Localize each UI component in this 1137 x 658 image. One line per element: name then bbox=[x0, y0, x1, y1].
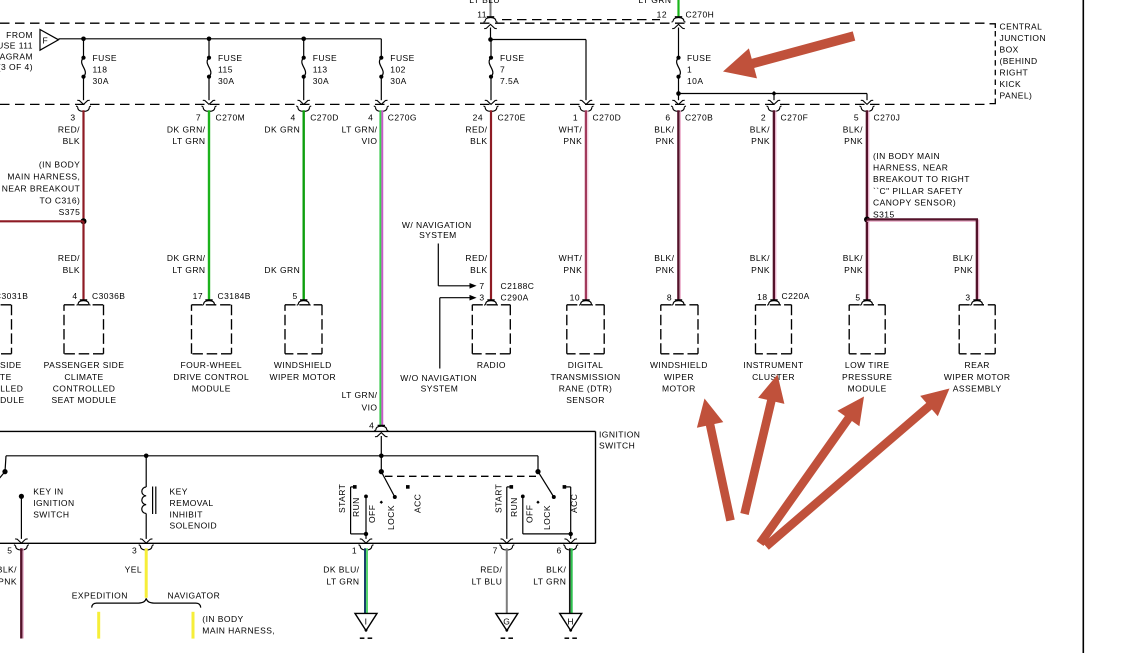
switch - key in ignition switch contact bbox=[15, 494, 27, 543]
svg-text:7: 7 bbox=[493, 546, 498, 556]
junction at fuse 1 output bbox=[676, 91, 681, 96]
junction on bus at fuse 115 bbox=[207, 37, 212, 42]
svg-text:RED/: RED/ bbox=[480, 565, 502, 575]
svg-text:(3 OF 4): (3 OF 4) bbox=[0, 62, 33, 72]
svg-text:G: G bbox=[503, 616, 510, 626]
wire - power bus from F to fuses 118/115/113/102 bbox=[59, 38, 382, 40]
svg-text:BLK/: BLK/ bbox=[843, 253, 863, 263]
label ACC (left) bbox=[413, 494, 423, 513]
junction at pin 4 bbox=[379, 454, 384, 459]
svg-text:6: 6 bbox=[665, 113, 670, 123]
svg-text:C3031B: C3031B bbox=[0, 291, 28, 301]
svg-text:C3184B: C3184B bbox=[218, 291, 251, 301]
svg-text:7.5A: 7.5A bbox=[500, 76, 519, 86]
junction at pin 2 branch bbox=[772, 91, 777, 96]
svg-text:KICK: KICK bbox=[1000, 79, 1022, 89]
svg-text:4: 4 bbox=[72, 291, 77, 301]
connector pin 1 C270D (CJB exit) bbox=[573, 106, 621, 122]
svg-text:11: 11 bbox=[477, 10, 487, 20]
label BLK/PNK 4 (lower) bbox=[843, 253, 863, 275]
connector pin 4 C270D (CJB exit) bbox=[291, 106, 339, 122]
svg-text:LT GRN/: LT GRN/ bbox=[342, 390, 378, 400]
fuse F115 (FUSE 115 30A) bbox=[203, 39, 243, 105]
svg-text:TO C316): TO C316) bbox=[40, 196, 81, 206]
svg-text:PANEL): PANEL) bbox=[1000, 91, 1033, 101]
svg-text:PNK: PNK bbox=[751, 265, 770, 275]
connector pin 8 - windshield wiper motor (right) bbox=[650, 293, 708, 394]
svg-text:VIO: VIO bbox=[362, 136, 378, 146]
svg-text:5: 5 bbox=[7, 546, 12, 556]
svg-text:H: H bbox=[567, 616, 574, 626]
svg-text:SWITCH: SWITCH bbox=[33, 509, 69, 519]
svg-text:C270J: C270J bbox=[874, 113, 901, 123]
connector pins 7 C2188C / 3 C290A - radio bbox=[472, 281, 534, 370]
connector pin 10 - digital transmission rane (DTR) sensor bbox=[550, 293, 620, 405]
wire YEL expedition branch bbox=[97, 612, 100, 639]
connector pin 5 C270J (CJB exit) bbox=[854, 106, 901, 122]
svg-text:C290A: C290A bbox=[501, 293, 529, 303]
svg-text:FUSE: FUSE bbox=[390, 53, 414, 63]
svg-text:BLK: BLK bbox=[63, 136, 80, 146]
svg-text:SEAT MODULE: SEAT MODULE bbox=[51, 395, 116, 405]
svg-text:FUSE: FUSE bbox=[687, 53, 711, 63]
svg-text:RADIO: RADIO bbox=[477, 360, 506, 370]
wire - from pin 11 to fuse 7 and branch to pin 1 bbox=[491, 28, 593, 105]
svg-text:S315: S315 bbox=[873, 209, 895, 219]
svg-text:NAVIGATOR: NAVIGATOR bbox=[168, 591, 221, 601]
svg-text:12: 12 bbox=[657, 10, 667, 20]
svg-text:TRANSMISSION: TRANSMISSION bbox=[550, 372, 620, 382]
wire DK BLU/LT GRN from ignition pin 1 to ground I bbox=[365, 548, 367, 613]
connector pin 17 C3184B - four-wheel drive control module bbox=[173, 291, 250, 393]
svg-text:6: 6 bbox=[557, 546, 562, 556]
connector pin 6 C270B (CJB exit) bbox=[665, 106, 713, 122]
connector pin 5 - windshield wiper motor (left) bbox=[269, 291, 336, 382]
fuse F102 (FUSE 102 30A) bbox=[375, 39, 415, 105]
svg-text:4: 4 bbox=[291, 113, 296, 123]
svg-text:CLIMATE: CLIMATE bbox=[0, 372, 12, 382]
label DK BLU/LT GRN bbox=[323, 565, 359, 587]
wire BLK/PNK pin 5 C270J to S315 bbox=[867, 110, 869, 219]
svg-text:W/ NAVIGATION: W/ NAVIGATION bbox=[402, 220, 472, 230]
svg-text:LOCK: LOCK bbox=[542, 505, 552, 530]
svg-text:BLK/: BLK/ bbox=[843, 124, 863, 134]
junction at solenoid bbox=[144, 454, 149, 459]
svg-text:START: START bbox=[494, 484, 504, 513]
connector pin 3 (CJB exit) bbox=[70, 106, 91, 122]
junction at pin 1 exit bbox=[364, 532, 368, 536]
svg-text:4: 4 bbox=[369, 420, 374, 430]
svg-text:(IN BODY: (IN BODY bbox=[39, 160, 80, 170]
fuse F1 (FUSE 1 10A) bbox=[676, 28, 711, 94]
svg-text:BLK/: BLK/ bbox=[750, 253, 770, 263]
wire RED/BLK from S375 to passenger seat module bbox=[82, 221, 84, 299]
svg-text:FUSE 111: FUSE 111 bbox=[0, 41, 33, 51]
connector pin 11 entry (LT BLU wire from above) bbox=[469, 0, 500, 29]
svg-text:30A: 30A bbox=[218, 76, 234, 86]
svg-text:SENSOR: SENSOR bbox=[566, 395, 605, 405]
svg-text:WHT/: WHT/ bbox=[559, 253, 583, 263]
svg-text:113: 113 bbox=[313, 65, 328, 75]
svg-text:ASSEMBLY: ASSEMBLY bbox=[953, 383, 1002, 393]
svg-text:1: 1 bbox=[573, 113, 578, 123]
svg-text:115: 115 bbox=[218, 65, 233, 75]
svg-text:HARNESS, NEAR: HARNESS, NEAR bbox=[873, 163, 948, 173]
svg-text:10A: 10A bbox=[687, 76, 703, 86]
junction at fuse 7 top bbox=[488, 37, 493, 42]
wire RED/BLK branch from S375 to left bbox=[0, 220, 84, 222]
svg-text:JUNCTION: JUNCTION bbox=[1000, 33, 1047, 43]
label BLK/LT GRN bbox=[533, 565, 566, 587]
wire BLK/PNK pin 6 C270B to windshield wiper motor bbox=[678, 110, 680, 299]
svg-text:RED/: RED/ bbox=[58, 253, 80, 263]
contact START (right) bbox=[510, 485, 514, 489]
mechanical linkage (dashed) bbox=[385, 475, 536, 477]
svg-text:ACC: ACC bbox=[569, 494, 579, 513]
svg-text:INHIBIT: INHIBIT bbox=[170, 509, 203, 519]
svg-text:5: 5 bbox=[855, 293, 860, 303]
label LT GRN/VIO (top) bbox=[342, 124, 378, 146]
svg-text:VIO: VIO bbox=[362, 402, 378, 412]
svg-text:7: 7 bbox=[500, 65, 505, 75]
label EXPEDITION bbox=[72, 591, 128, 601]
contact OFF (right) bbox=[536, 501, 539, 504]
ignition switch (box) bbox=[0, 431, 596, 543]
svg-text:OFF: OFF bbox=[367, 505, 377, 523]
svg-text:3: 3 bbox=[70, 113, 75, 123]
svg-text:30A: 30A bbox=[93, 76, 109, 86]
svg-text:DRIVE CONTROL: DRIVE CONTROL bbox=[173, 372, 249, 382]
svg-text:KEY: KEY bbox=[170, 487, 188, 497]
svg-text:18: 18 bbox=[757, 292, 767, 302]
svg-text:FROM: FROM bbox=[6, 30, 33, 40]
svg-text:PNK: PNK bbox=[656, 136, 675, 146]
svg-text:3: 3 bbox=[479, 293, 484, 303]
svg-text:SYSTEM: SYSTEM bbox=[421, 384, 459, 394]
svg-text:FUSE: FUSE bbox=[313, 53, 337, 63]
off-page connector F (FROM FUSE 111 DIAGRAM (3 OF 4)) bbox=[0, 30, 59, 73]
svg-text:``C" PILLAR SAFETY: ``C" PILLAR SAFETY bbox=[873, 186, 963, 196]
label START (right) bbox=[494, 484, 504, 513]
label (IN BODY MAIN HARNESS, bbox=[202, 614, 275, 636]
svg-text:C3036B: C3036B bbox=[92, 291, 125, 301]
svg-text:1: 1 bbox=[687, 65, 692, 75]
label DK GRN/LT GRN (lower) bbox=[167, 253, 206, 275]
wire BLK/PNK branch S315 to rear wiper motor bbox=[867, 219, 979, 299]
svg-text:MODULE: MODULE bbox=[848, 383, 887, 393]
wire RED/LT BLU from ignition pin 7 to ground G bbox=[506, 548, 508, 613]
svg-text:PNK: PNK bbox=[656, 265, 675, 275]
svg-text:C270M: C270M bbox=[216, 113, 246, 123]
label: IGNITION SWITCH bbox=[599, 430, 640, 451]
connector pin 3 (ignition switch exit) bbox=[132, 545, 154, 556]
annotation arrow (to low tire pressure module) bbox=[760, 397, 864, 544]
contact RUN (right) bbox=[521, 495, 525, 499]
label OFF (right) bbox=[525, 505, 535, 523]
wire BLK/LT GRN from ignition pin 6 to ground H bbox=[570, 548, 572, 613]
label BLK/PNK 2 (lower) bbox=[750, 253, 770, 275]
svg-text:C270B: C270B bbox=[685, 113, 713, 123]
svg-text:4: 4 bbox=[368, 113, 373, 123]
annotation arrow (to instrument cluster) bbox=[745, 375, 785, 515]
wire RED/BLK from pin 3 to S375 bbox=[82, 110, 84, 221]
connector pin 6 (ignition switch exit) bbox=[557, 545, 579, 556]
svg-text:C220A: C220A bbox=[782, 291, 810, 301]
svg-text:DIGITAL: DIGITAL bbox=[568, 360, 604, 370]
svg-text:LT GRN/: LT GRN/ bbox=[342, 124, 378, 134]
svg-text:IGNITION: IGNITION bbox=[599, 430, 640, 440]
wire BLK/PNK from S315 to low tire pressure module bbox=[867, 220, 869, 300]
svg-text:LT BLU: LT BLU bbox=[469, 0, 500, 5]
svg-text:REAR: REAR bbox=[964, 360, 989, 370]
svg-text:IGNITION: IGNITION bbox=[33, 498, 74, 508]
svg-text:RED/: RED/ bbox=[58, 124, 80, 134]
annotation arrow (to rear wiper motor assembly) bbox=[766, 389, 950, 547]
solenoid - key removal inhibit solenoid bbox=[140, 456, 156, 543]
svg-text:RANE (DTR): RANE (DTR) bbox=[559, 383, 613, 393]
svg-text:7: 7 bbox=[196, 113, 201, 123]
label WHT/PNK (lower) bbox=[559, 253, 583, 275]
svg-text:FUSE: FUSE bbox=[500, 53, 524, 63]
wire YEL from ignition pin 3 bbox=[145, 548, 148, 598]
label BLK/PNK 2 (top) bbox=[750, 124, 770, 146]
connector pin 7 (ignition switch exit) bbox=[493, 545, 515, 556]
splice S375 bbox=[2, 160, 87, 225]
switch contact (partial, off-page left) bbox=[0, 456, 8, 486]
svg-text:PNK: PNK bbox=[954, 265, 973, 275]
label WHT/PNK (top) bbox=[559, 124, 583, 146]
wire - START contact to pin 7 bbox=[501, 487, 513, 543]
svg-text:BLK: BLK bbox=[470, 265, 487, 275]
svg-text:(IN BODY MAIN: (IN BODY MAIN bbox=[873, 151, 940, 161]
wire - ignition feed bus bbox=[6, 436, 538, 456]
label RED/BLK (lower) bbox=[58, 253, 80, 275]
svg-text:CLIMATE: CLIMATE bbox=[64, 372, 103, 382]
label: KEY IN IGNITION SWITCH bbox=[33, 487, 74, 520]
label DK GRN (top) bbox=[264, 124, 300, 134]
connector pin 1 (ignition switch exit) bbox=[352, 545, 374, 556]
svg-text:OFF: OFF bbox=[525, 505, 535, 523]
fuse F7 (FUSE 7 7.5A) bbox=[485, 40, 525, 105]
annotation arrow (to FUSE 1) bbox=[723, 36, 854, 78]
svg-text:DK GRN: DK GRN bbox=[264, 124, 300, 134]
connector pin 5 (ignition switch exit) bbox=[7, 545, 29, 556]
connector pin 2 C270F (CJB exit) bbox=[761, 106, 808, 122]
svg-text:BOX: BOX bbox=[1000, 45, 1019, 55]
connector pin 18 C220A - instrument cluster bbox=[743, 291, 809, 382]
svg-text:WIPER MOTOR: WIPER MOTOR bbox=[269, 372, 336, 382]
svg-text:WIPER: WIPER bbox=[664, 372, 694, 382]
svg-text:C2188C: C2188C bbox=[501, 281, 535, 291]
svg-text:LOCK: LOCK bbox=[386, 505, 396, 530]
connector pin 5 - low tire pressure module bbox=[842, 293, 892, 394]
svg-text:C270F: C270F bbox=[781, 113, 809, 123]
svg-text:C270H: C270H bbox=[686, 10, 715, 20]
svg-text:W/O NAVIGATION: W/O NAVIGATION bbox=[400, 373, 477, 383]
ground G bbox=[496, 613, 518, 638]
svg-text:S375: S375 bbox=[59, 207, 81, 217]
svg-text:30A: 30A bbox=[313, 76, 329, 86]
svg-text:DK BLU/: DK BLU/ bbox=[323, 565, 359, 575]
wire - RUN/ACC contacts to pin 6 bbox=[523, 487, 577, 543]
wire RED/BLK pin 24 C270E to radio bbox=[490, 110, 492, 299]
svg-text:LT GRN: LT GRN bbox=[172, 136, 205, 146]
svg-text:SEAT MODULE: SEAT MODULE bbox=[0, 395, 25, 405]
svg-text:10: 10 bbox=[570, 293, 580, 303]
switch rotor (right) with wiper to LOCK bbox=[535, 456, 555, 499]
connector pin 4 entry - ignition switch bbox=[369, 420, 388, 437]
junction on bus at fuse 113 bbox=[301, 37, 306, 42]
svg-text:BLK: BLK bbox=[470, 136, 487, 146]
svg-text:(BEHIND: (BEHIND bbox=[1000, 56, 1038, 66]
wire BLK/PNK from ignition pin 5 bbox=[21, 548, 23, 638]
svg-text:PNK: PNK bbox=[563, 265, 582, 275]
svg-text:EXPEDITION: EXPEDITION bbox=[72, 591, 128, 601]
wire - START/RUN contacts to pin 1 bbox=[351, 487, 373, 543]
contact RUN (left) bbox=[364, 495, 368, 499]
central junction box (dashed border) bbox=[0, 20, 995, 105]
wire DK GRN pin 4 C270D to windshield wiper motor bbox=[303, 110, 305, 299]
label RED/BLK (top) bbox=[58, 124, 80, 146]
switch rotor (left) with wiper to LOCK bbox=[379, 456, 397, 499]
svg-text:PRESSURE: PRESSURE bbox=[842, 372, 892, 382]
svg-text:8: 8 bbox=[667, 293, 672, 303]
svg-text:RUN: RUN bbox=[509, 497, 519, 517]
svg-text:RIGHT: RIGHT bbox=[1000, 68, 1029, 78]
brace (expedition/navigator split) bbox=[92, 598, 201, 607]
label BLK/PNK 3 (top) bbox=[843, 124, 863, 146]
label LOCK (right) bbox=[542, 505, 552, 530]
connector pin 3 - rear wiper motor assembly bbox=[944, 293, 1011, 394]
svg-text:PNK: PNK bbox=[0, 577, 17, 587]
svg-text:BLK/: BLK/ bbox=[750, 124, 770, 134]
svg-text:BREAKOUT TO RIGHT: BREAKOUT TO RIGHT bbox=[873, 174, 970, 184]
svg-text:NEAR BREAKOUT: NEAR BREAKOUT bbox=[2, 183, 81, 193]
svg-text:C270D: C270D bbox=[593, 113, 622, 123]
label NAVIGATOR bbox=[168, 591, 221, 601]
svg-text:WINDSHIELD: WINDSHIELD bbox=[274, 360, 332, 370]
annotation W/ NAVIGATION SYSTEM with arrow to pin 7 bbox=[402, 220, 477, 289]
svg-text:FUSE: FUSE bbox=[93, 53, 117, 63]
svg-text:1: 1 bbox=[352, 546, 357, 556]
svg-text:SYSTEM: SYSTEM bbox=[419, 230, 457, 240]
svg-text:PNK: PNK bbox=[844, 136, 863, 146]
svg-text:MAIN HARNESS,: MAIN HARNESS, bbox=[202, 626, 275, 636]
svg-text:BLK/: BLK/ bbox=[546, 565, 566, 575]
junction at pin 6 exit bbox=[569, 532, 573, 536]
svg-text:C270E: C270E bbox=[498, 113, 526, 123]
svg-text:5: 5 bbox=[854, 113, 859, 123]
svg-text:7: 7 bbox=[479, 281, 484, 291]
contact ACC (left) bbox=[406, 485, 410, 489]
svg-text:5: 5 bbox=[293, 291, 298, 301]
connector pin 4 C3036B - passenger side climate controlled seat module bbox=[44, 291, 126, 405]
svg-text:I: I bbox=[365, 616, 368, 626]
svg-text:REMOVAL: REMOVAL bbox=[170, 498, 214, 508]
svg-text:WIPER MOTOR: WIPER MOTOR bbox=[944, 372, 1011, 382]
label LOCK (left) bbox=[386, 505, 396, 530]
svg-text:RUN: RUN bbox=[351, 497, 361, 517]
svg-text:DRIVER SIDE: DRIVER SIDE bbox=[0, 360, 22, 370]
svg-text:WINDSHIELD: WINDSHIELD bbox=[650, 360, 708, 370]
svg-text:CONTROLLED: CONTROLLED bbox=[0, 383, 23, 393]
label: KEY REMOVAL INHIBIT SOLENOID bbox=[170, 487, 218, 531]
ground H bbox=[560, 613, 582, 638]
svg-text:MODULE: MODULE bbox=[192, 383, 231, 393]
svg-text:CENTRAL: CENTRAL bbox=[1000, 22, 1043, 32]
svg-text:KEY IN: KEY IN bbox=[33, 487, 63, 497]
svg-text:24: 24 bbox=[473, 113, 483, 123]
wire WHT/PNK pin 1 C270D to DTR sensor bbox=[586, 110, 588, 299]
label OFF (left) bbox=[367, 505, 377, 523]
svg-text:LT GRN: LT GRN bbox=[638, 0, 671, 5]
label START (left) bbox=[337, 484, 347, 513]
svg-text:3: 3 bbox=[132, 546, 137, 556]
svg-text:RED/: RED/ bbox=[465, 253, 487, 263]
svg-text:PNK: PNK bbox=[563, 136, 582, 146]
wire - fuse 1 output bus to pins 6/2/5 bbox=[672, 94, 873, 105]
svg-text:(IN BODY: (IN BODY bbox=[202, 614, 243, 624]
svg-text:FUSE: FUSE bbox=[218, 53, 242, 63]
svg-text:LT BLU: LT BLU bbox=[472, 577, 503, 587]
svg-text:BLK: BLK bbox=[63, 265, 80, 275]
connector C3031B driver side climate controlled seat module (partial) bbox=[0, 291, 28, 405]
label LT GRN/VIO (lower) bbox=[342, 390, 378, 412]
svg-text:BLK/: BLK/ bbox=[953, 253, 973, 263]
connector pin 4 C270G (CJB exit) bbox=[368, 106, 417, 122]
contact OFF (left) bbox=[380, 501, 383, 504]
fuse F113 (FUSE 113 30A) bbox=[298, 39, 338, 105]
label: CENTRAL JUNCTION BOX (BEHIND RIGHT KICK PANEL) bbox=[1000, 22, 1047, 101]
svg-text:MAIN HARNESS,: MAIN HARNESS, bbox=[7, 171, 80, 181]
connector pin 24 C270E (CJB exit) bbox=[473, 106, 526, 122]
annotation W/O NAVIGATION SYSTEM with arrow to pin 3 bbox=[400, 295, 477, 394]
ground I bbox=[355, 613, 377, 638]
label RUN (right) bbox=[509, 497, 519, 517]
label RUN (left) bbox=[351, 497, 361, 517]
svg-text:LT GRN: LT GRN bbox=[533, 577, 566, 587]
connector pin 7 C270M (CJB exit) bbox=[196, 106, 245, 122]
svg-text:CANOPY SENSOR): CANOPY SENSOR) bbox=[873, 198, 956, 208]
label BLK/PNK 1 (top) bbox=[654, 124, 674, 146]
label BLK/PNK (ignition) bbox=[0, 565, 17, 587]
svg-text:102: 102 bbox=[390, 65, 406, 75]
contact ACC (right) bbox=[563, 485, 567, 489]
label RED/LT BLU bbox=[472, 565, 503, 587]
splice S315 bbox=[864, 151, 970, 223]
label BLK/PNK 1 (lower) bbox=[654, 253, 674, 275]
svg-text:DK GRN: DK GRN bbox=[264, 265, 300, 275]
wire LT GRN/VIO pin 4 C270G to ignition switch bbox=[380, 110, 382, 425]
wire BLK/PNK pin 2 C270F to instrument cluster bbox=[774, 110, 776, 299]
svg-text:RED/: RED/ bbox=[465, 124, 487, 134]
svg-text:17: 17 bbox=[193, 291, 203, 301]
svg-text:BLK/: BLK/ bbox=[0, 565, 17, 575]
svg-text:PASSENGER SIDE: PASSENGER SIDE bbox=[44, 360, 125, 370]
fuse F118 (FUSE 118 30A) bbox=[77, 39, 117, 105]
svg-text:DIAGRAM: DIAGRAM bbox=[0, 51, 33, 61]
svg-text:SWITCH: SWITCH bbox=[599, 441, 635, 451]
svg-text:C270D: C270D bbox=[310, 113, 339, 123]
label ACC (right) bbox=[569, 494, 579, 513]
label YEL bbox=[125, 565, 142, 575]
connector pin 12 entry C270H (LT GRN wire from above) bbox=[638, 0, 714, 29]
svg-text:DK GRN/: DK GRN/ bbox=[167, 124, 206, 134]
annotation arrow (to windshield wiper motor) bbox=[697, 399, 731, 521]
svg-text:CONTROLLED: CONTROLLED bbox=[53, 383, 116, 393]
svg-text:INSTRUMENT: INSTRUMENT bbox=[743, 360, 803, 370]
svg-text:PNK: PNK bbox=[844, 265, 863, 275]
